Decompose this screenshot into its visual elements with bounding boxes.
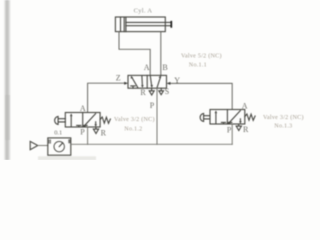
scan smudge bottom left [38,156,96,160]
svg-text:B: B [162,63,167,72]
wire cylinder left port to valve A [119,32,150,76]
5/2 P supply riser [156,88,158,144]
svg-text:No.1.1: No.1.1 [189,62,207,68]
5/2 blocked port T left square [131,86,135,88]
svg-text:R: R [243,125,249,134]
svg-text:P: P [227,125,232,134]
v1.2 passage A-R diagonal [84,114,96,127]
5/2 left square passage crossed 1 [132,77,138,88]
v1.3 spring [245,114,255,120]
svg-text:No.1.2: No.1.2 [124,126,142,132]
svg-text:A: A [80,104,86,113]
svg-text:Z: Z [116,74,121,83]
v1.3 T block left [221,122,225,124]
svg-text:P: P [150,101,155,110]
svg-text:R: R [101,128,107,137]
v1.2 left square up arrow [70,115,72,126]
cylinder piston rod [126,21,171,23]
svg-text:A: A [144,63,150,72]
unit inner tick left [49,140,50,143]
rod end cap [170,22,172,27]
v1.2 P riser down to rail [87,127,89,144]
wire cylinder right port to valve B [160,32,162,76]
svg-text:No.1.3: No.1.3 [274,123,292,129]
wire source to unit box [38,145,48,147]
pilot Y wire to valve1.3 A [170,83,232,109]
valve 3/2 No.1.3 body [210,110,245,125]
v1.2 R arrow stub [95,122,97,125]
pressure gauge circle [54,141,64,151]
valve 3/2 No.1.2 body [65,113,100,128]
supply source triangle [30,141,38,149]
svg-text:Cyl. A: Cyl. A [134,7,153,14]
pilot Z arrowhead [124,82,128,85]
cylinder piston [123,17,125,32]
5/2 exhaust R stub + triangle [151,88,153,91]
svg-text:0.1: 0.1 [54,130,62,137]
svg-text:P: P [80,127,85,136]
svg-text:S: S [165,87,169,96]
pilot Y arrowhead [167,82,171,85]
v1.2 T block right [83,125,87,127]
svg-text:Y: Y [174,76,180,85]
v1.3 button stem [204,116,210,119]
v1.3 passage A-R diagonal [229,111,241,124]
v1.3 push button knob [200,113,203,121]
v1.3 left square up arrow [215,112,217,123]
v1.3 P riser down to rail [231,124,233,144]
v1.3 T block right [228,122,232,124]
unit inner tick right [69,140,70,143]
5/2 exhaust S stub + triangle [160,88,162,91]
svg-text:Valve 3/2 (NC): Valve 3/2 (NC) [114,116,155,123]
svg-text:Valve 3/2 (NC): Valve 3/2 (NC) [263,114,304,121]
scan edge streak left [4,0,12,160]
cylinder rear cap line [120,17,122,32]
5/2 right square passage P-B [157,77,161,88]
v1.2 exhaust triangle [95,127,97,129]
v1.3 exhaust triangle [238,124,240,126]
v1.2 T block left [77,125,81,127]
5/2 left square passage crossed 2 [141,76,144,86]
valve 5/2 No.1.1 body [128,75,167,88]
v1.2 spring [100,117,110,123]
bottom supply rail [71,143,232,145]
pilot Z wire from valve1.2 A [88,83,125,112]
5/2 right square passage A-R [150,76,151,87]
cylinder Cyl.A body [115,17,165,32]
svg-text:Valve 5/2 (NC): Valve 5/2 (NC) [181,52,222,59]
svg-text:R: R [140,88,146,97]
v1.3 R arrow stub [239,119,241,122]
gauge needle [59,143,62,147]
v1.2 button stem [58,119,65,122]
svg-text:A: A [242,101,248,110]
v1.2 push button knob [55,116,58,124]
air service unit box 0.1 [48,138,71,155]
